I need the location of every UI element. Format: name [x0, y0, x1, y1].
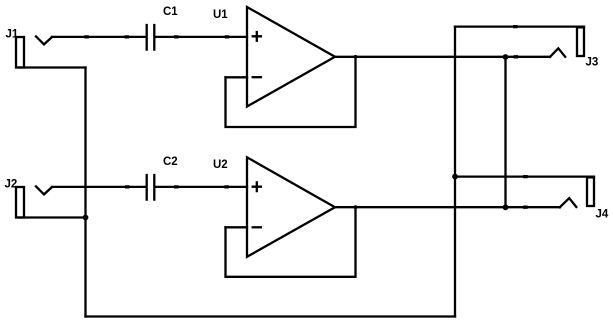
svg-text:C1: C1	[163, 6, 178, 18]
jack J2 label	[5, 179, 18, 191]
op-amp U1 minus marking	[253, 76, 261, 78]
wire J1 sleeve to left rail	[19, 66, 86, 68]
wire right ground rail	[454, 27, 456, 317]
wire J1 tip to C1	[52, 36, 146, 38]
jack J3 body	[577, 27, 584, 56]
wire U2 inverting input	[226, 226, 248, 228]
wire U2 feedback loop	[226, 207, 356, 277]
wire J2 sleeve to left rail	[19, 216, 86, 218]
svg-text:U2: U2	[213, 159, 228, 171]
jack J4 label	[596, 208, 609, 220]
svg-text:J2: J2	[5, 179, 18, 191]
jack J4 body	[587, 177, 594, 206]
jack J2 tip contact	[36, 186, 52, 194]
capacitor C1	[147, 25, 155, 50]
jack J4 tip contact	[560, 198, 577, 207]
jack J1 body	[16, 37, 24, 68]
capacitor C2 label	[163, 156, 178, 168]
op-amp U2 minus marking	[253, 226, 261, 228]
node U2 output to link junction	[503, 204, 509, 210]
wire J3 sleeve to right rail	[455, 25, 584, 27]
jack J1 tip contact	[36, 36, 52, 44]
wire segment joint marks	[86, 27, 526, 208]
op-amp U2 label	[213, 159, 228, 171]
op-amp U1 plus marking	[253, 32, 261, 41]
jack J3 label	[586, 57, 599, 69]
node U2 feedback/output junction	[354, 205, 358, 209]
svg-text:U1: U1	[213, 9, 228, 21]
svg-text:J4: J4	[596, 208, 609, 220]
wire J4 sleeve to right rail	[455, 175, 594, 177]
jack J2 body	[16, 187, 24, 218]
jack J3 tip contact	[550, 48, 565, 57]
op-amp U1	[247, 7, 335, 107]
wire U1 feedback loop	[226, 57, 356, 127]
node J2 sleeve junction	[83, 215, 89, 221]
svg-text:J3: J3	[586, 57, 599, 69]
capacitor C2	[147, 175, 155, 200]
op-amp U2	[247, 157, 335, 256]
wire bottom ground rail	[86, 315, 456, 317]
op-amp U2 plus marking	[253, 182, 261, 191]
op-amp U1 label	[213, 9, 228, 21]
node U1 feedback/output junction	[354, 55, 358, 59]
capacitor C1 label	[163, 6, 178, 18]
wire U1 output to J3 tip	[335, 56, 550, 58]
wire U2 output to J4 tip	[335, 206, 560, 208]
jack J1 label	[6, 29, 19, 41]
wire U1 inverting input	[226, 76, 248, 78]
wire C1 to U1 noninverting input	[155, 36, 247, 38]
node U1 output to link junction	[503, 54, 509, 60]
wire J2 tip to C2	[52, 186, 146, 188]
wire left ground rail	[84, 68, 86, 317]
node J4 sleeve junction	[452, 174, 458, 180]
svg-text:C2: C2	[163, 156, 178, 168]
wire link between outputs	[504, 57, 506, 207]
wire C2 to U2 noninverting input	[155, 186, 247, 188]
svg-text:J1: J1	[6, 29, 19, 41]
